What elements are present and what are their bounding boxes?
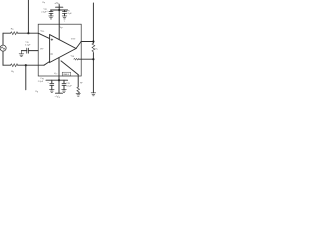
node output junction [92,40,94,42]
ground at C2 [49,16,54,19]
wire +VS stem [58,5,60,40]
svg-text:0.1µF: 0.1µF [25,44,31,46]
ground at C5 [62,90,67,93]
minus input glyph [51,53,53,55]
node -VS rail junction [58,79,60,81]
capacitor C2 bypass left top [49,10,53,16]
node top branch junction [27,32,29,34]
wire +in diagonal [38,33,49,38]
svg-text:+: + [47,82,49,84]
wire branch down from junction [25,65,27,90]
wire output to load [81,41,93,43]
node feedback junction [92,58,94,60]
svg-text:VFB: VFB [71,56,74,58]
svg-text:RG: RG [11,71,15,73]
svg-text:RS: RS [11,28,14,30]
wire disable diagonal [61,61,78,75]
ground at C4 [50,90,55,93]
wire disable pin down [77,75,79,87]
IC box U1 outline [38,24,81,76]
plus input glyph [51,39,53,41]
-VS T terminal [56,92,63,94]
svg-text:RP: RP [80,82,83,84]
svg-text:VOUT: VOUT [71,38,76,40]
wire RG to -in [18,64,44,66]
resistor RS [11,32,18,35]
ground at disable pin [76,93,80,96]
capacitor C4 bypass left bottom [50,80,54,89]
wire top branch vertical [27,0,29,33]
wire -VS stem [58,58,60,94]
svg-text:RB: RB [35,91,38,93]
+VS T terminal [56,6,63,8]
svg-text:7: 7 [64,21,65,23]
svg-text:0.1µF: 0.1µF [66,13,72,15]
ground at C3 [62,16,67,19]
wire source bottom [2,51,4,65]
ground at right rail bottom [91,93,96,96]
svg-text:VIN+: VIN+ [40,31,45,33]
resistor RL on right rail [92,43,95,52]
svg-text:RL: RL [95,48,98,50]
ground at C1 [19,51,24,57]
wire feedback horizontal [79,58,94,60]
svg-text:−VS: −VS [55,95,61,100]
source V1 [0,45,6,51]
op-amp A1 triangle [50,35,76,63]
svg-text:0.1µF: 0.1µF [66,85,72,87]
resistor RG [11,64,18,67]
svg-text:VS+: VS+ [60,27,64,29]
wire bottom left [3,64,11,66]
svg-text:ENABLE: ENABLE [63,73,69,76]
enable logic box [62,72,70,76]
svg-text:RP: RP [42,2,45,4]
wire input to box [18,32,39,34]
wire source top [2,33,4,45]
resistor RP pulldown [77,87,80,93]
resistor RF internal small [74,58,79,60]
wire -in diagonal [44,62,50,66]
capacitor C1 at -in pin [21,48,38,53]
node +VS rail junction [58,9,60,11]
svg-text:2.2µF: 2.2µF [38,81,44,83]
svg-text:+: + [47,10,49,12]
wire +VS rail [51,9,68,11]
wire right rail full height [92,3,94,43]
svg-text:+VS: +VS [54,1,60,6]
node junction on bottom wire [25,64,27,66]
wire input left [3,32,11,34]
svg-text:VIN−: VIN− [40,48,45,50]
wire output diagonal [76,42,81,49]
capacitor C5 bypass right bottom [62,80,66,89]
wire -VS rail [46,79,68,81]
capacitor C3 bypass right top [63,10,67,16]
wire right rail lower [92,53,94,93]
svg-text:VS−: VS− [54,73,58,75]
